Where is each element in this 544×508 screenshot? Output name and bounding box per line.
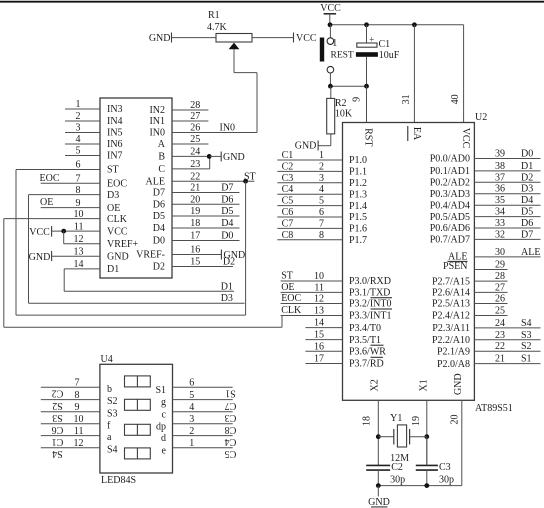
svg-text:P1.5: P1.5: [349, 212, 367, 223]
svg-text:S1: S1: [155, 385, 166, 396]
wire D3 bus vertical left: [28, 195, 30, 304]
wire ADC pin 27: [172, 120, 208, 122]
svg-text:REST: REST: [331, 51, 354, 61]
wire U2 pin 29: [474, 269, 507, 271]
node GND at ADC pin 16: [220, 250, 222, 260]
svg-text:D0: D0: [221, 231, 233, 242]
svg-text:32: 32: [495, 229, 505, 240]
svg-text:20: 20: [190, 194, 200, 205]
svg-text:26: 26: [190, 123, 200, 134]
wire U4 right pin 6: [173, 386, 233, 388]
svg-text:D4: D4: [221, 218, 233, 229]
wire X2 to Y1: [378, 436, 394, 438]
wire ADC pin 14 D1: [64, 268, 100, 270]
wire VCC pin 40 riser: [463, 25, 465, 123]
wire ADC pin 19 D5: [172, 215, 240, 217]
svg-text:D5: D5: [521, 207, 533, 218]
wire U2 pin 2 C2: [277, 170, 342, 172]
svg-text:IN1: IN1: [149, 116, 165, 127]
wire U2 pin 6 C6: [277, 216, 342, 218]
node VCC (right terminal of R1): [293, 33, 295, 43]
svg-text:6: 6: [189, 378, 194, 389]
svg-text:D0: D0: [521, 149, 533, 160]
wire U2 pin 3 C3: [277, 182, 342, 184]
svg-text:C4: C4: [282, 184, 294, 195]
wire U2 pin 13 CLK: [281, 315, 343, 317]
svg-text:13: 13: [314, 306, 324, 317]
svg-text:P2.7/A15: P2.7/A15: [432, 276, 470, 287]
svg-text:P2.3/A11: P2.3/A11: [432, 323, 470, 334]
svg-text:C7: C7: [225, 400, 237, 411]
svg-text:IN7: IN7: [107, 151, 123, 162]
wire X1 vertical: [426, 400, 428, 465]
svg-text:C5: C5: [225, 448, 237, 459]
svg-text:P1.7: P1.7: [349, 235, 367, 246]
svg-text:b: b: [107, 384, 112, 395]
svg-text:OE: OE: [281, 282, 294, 293]
svg-text:27: 27: [190, 111, 200, 122]
svg-text:P0.1/AD1: P0.1/AD1: [430, 166, 470, 177]
svg-text:P3.7/RD: P3.7/RD: [349, 359, 384, 370]
op-amp U4 LED84S box: [100, 364, 173, 473]
wire D3 bus horizontal: [29, 302, 245, 304]
svg-text:d: d: [161, 433, 166, 444]
svg-text:VCC: VCC: [460, 128, 471, 149]
svg-text:C8: C8: [225, 424, 237, 435]
svg-text:2: 2: [189, 426, 194, 437]
svg-text:28: 28: [190, 100, 200, 111]
op-amp U1 ADC box: [100, 98, 172, 278]
svg-text:8: 8: [319, 230, 324, 241]
svg-text:EOC: EOC: [281, 293, 301, 304]
potentiometer wiper arrow of R1: [229, 43, 240, 50]
LED segment symbol 1: [125, 376, 151, 387]
overline INT1: [371, 308, 393, 310]
svg-text:15: 15: [314, 330, 324, 341]
svg-text:P3.3/INT1: P3.3/INT1: [349, 311, 392, 322]
wire U2 pin 21 S1: [474, 363, 540, 365]
svg-text:B: B: [158, 152, 165, 163]
svg-text:C3: C3: [282, 173, 294, 184]
svg-text:S1: S1: [521, 354, 532, 365]
svg-text:D4: D4: [521, 195, 533, 206]
svg-text:S1: S1: [225, 388, 236, 399]
capacitor C1 positive plate: [357, 43, 377, 47]
svg-text:OE: OE: [107, 203, 120, 214]
svg-text:GND: GND: [223, 152, 245, 163]
svg-text:D5: D5: [153, 211, 165, 222]
svg-text:D0: D0: [153, 236, 165, 247]
ground symbol bottom: [377, 486, 379, 497]
svg-text:ALE: ALE: [521, 247, 540, 258]
svg-text:11: 11: [74, 426, 84, 437]
svg-text:S2: S2: [521, 341, 532, 352]
wire U2 pin 1 C1: [277, 159, 342, 161]
svg-text:EOC: EOC: [107, 179, 127, 190]
svg-text:D6: D6: [153, 199, 165, 210]
svg-text:S3: S3: [107, 408, 118, 419]
svg-text:P0.7/AD7: P0.7/AD7: [430, 235, 470, 246]
svg-text:P1.4: P1.4: [349, 201, 367, 212]
svg-text:A: A: [158, 139, 166, 150]
wire ADC pin 26 IN0: [172, 132, 257, 134]
svg-text:15: 15: [190, 257, 200, 268]
svg-text:D5: D5: [221, 206, 233, 217]
resistor R1 (potentiometer body): [216, 34, 252, 43]
wire U4 left pin 9: [41, 411, 100, 413]
resistor R2 body: [327, 98, 335, 133]
junction rail at C3: [424, 483, 429, 488]
svg-text:7: 7: [75, 378, 80, 389]
svg-text:1: 1: [189, 438, 194, 449]
svg-text:LED84S: LED84S: [101, 475, 136, 486]
svg-text:38: 38: [495, 161, 505, 172]
switch S1 actuator bar: [320, 38, 324, 62]
wire U2 pin 7 C7: [277, 227, 342, 229]
svg-text:1: 1: [76, 99, 81, 110]
svg-text:P3.2/INT0: P3.2/INT0: [349, 299, 392, 310]
wire VREF+ riser: [63, 231, 65, 244]
svg-text:23: 23: [190, 159, 200, 170]
wire B-C join vertical: [209, 156, 211, 169]
wire U4 left pin 7: [41, 386, 100, 388]
wire U2 pin 28: [474, 280, 507, 282]
svg-text:IN0: IN0: [220, 123, 236, 134]
svg-text:P2.2/A10: P2.2/A10: [432, 335, 470, 346]
wire U4 right pin 3: [173, 423, 233, 425]
wire ADC pin 5: [65, 155, 100, 157]
svg-text:P3.6/WR: P3.6/WR: [349, 347, 386, 358]
svg-text:g: g: [161, 397, 166, 408]
wire GND pin 20 vertical: [461, 400, 463, 485]
wire D1 vertical: [63, 269, 65, 291]
wire U2 pin 16: [305, 350, 342, 352]
svg-text:D2: D2: [223, 257, 235, 268]
junction X1 at crystal: [424, 434, 429, 439]
wire ADC pin 16 VREF-: [172, 254, 221, 256]
wire C3 upper segment: [426, 437, 428, 466]
wire U2 pin 5 C5: [277, 205, 342, 207]
svg-text:P2.1/A9: P2.1/A9: [437, 346, 470, 357]
svg-text:IN5: IN5: [107, 128, 123, 139]
svg-text:10uF: 10uF: [379, 50, 400, 61]
junction rail at C2: [376, 483, 381, 488]
junction rail at S1: [328, 22, 333, 27]
wire bottom ground rail: [378, 485, 462, 487]
wire CLK bus vertical left: [3, 219, 5, 328]
svg-text:Y1: Y1: [390, 413, 402, 424]
svg-text:C4: C4: [225, 436, 237, 447]
junction at RST riser: [364, 84, 369, 89]
wire U2 pin 15: [305, 339, 342, 341]
svg-text:10: 10: [74, 209, 84, 220]
wire U2 pin 23 S3: [474, 339, 540, 341]
svg-text:17: 17: [314, 354, 324, 365]
wire ADC pin 21 D7: [172, 192, 240, 194]
svg-text:39: 39: [495, 149, 505, 160]
wire U2 pin 32 D7: [474, 238, 540, 240]
svg-text:S2: S2: [107, 396, 118, 407]
wire U2 pin 11 OE: [281, 291, 343, 293]
wire wiper down: [233, 49, 235, 73]
wire U4 right pin 1: [173, 447, 233, 449]
svg-text:D6: D6: [221, 194, 233, 205]
svg-text:ST: ST: [107, 165, 119, 176]
wire R2 to GND: [318, 145, 331, 147]
svg-text:P3.1/TXD: P3.1/TXD: [349, 288, 390, 299]
svg-text:S4: S4: [52, 448, 63, 459]
wire RST riser: [366, 86, 368, 122]
svg-text:P0.6/AD6: P0.6/AD6: [430, 223, 470, 234]
switch S1 top contact: [327, 38, 334, 45]
wire ADC pin 6 ST to left bus: [16, 169, 100, 171]
svg-text:S2: S2: [52, 400, 63, 411]
svg-text:P2.6/A14: P2.6/A14: [432, 288, 470, 299]
wire ADC pin 28: [172, 109, 208, 111]
svg-text:IN0: IN0: [149, 128, 165, 139]
svg-text:2: 2: [76, 111, 81, 122]
svg-text:D6: D6: [521, 218, 533, 229]
wire U4 left pin 12: [41, 447, 100, 449]
svg-text:GND: GND: [149, 33, 171, 44]
svg-text:30p: 30p: [390, 474, 405, 485]
svg-text:C: C: [158, 164, 165, 175]
wire U2 pin 4 C4: [277, 193, 342, 195]
svg-text:D2: D2: [153, 262, 165, 273]
svg-text:6: 6: [319, 207, 324, 218]
wire U2 pin 26: [474, 303, 507, 305]
svg-text:R1: R1: [208, 10, 220, 21]
svg-text:S3: S3: [52, 412, 63, 423]
wire U2 pin 35 D4: [474, 204, 540, 206]
wire junction to GND: [210, 155, 221, 157]
svg-text:7: 7: [76, 174, 81, 185]
svg-text:RST: RST: [362, 128, 373, 146]
junction at R2 top: [328, 84, 333, 89]
wire ST net vertical: [245, 181, 247, 315]
wire U2 pin 37 D2: [474, 181, 540, 183]
wire IN0 riser: [256, 73, 258, 133]
wire ADC pin 10 CLK to left bus: [4, 218, 100, 220]
junction X2 at crystal: [376, 434, 381, 439]
svg-text:D3: D3: [221, 293, 233, 304]
svg-text:4.7K: 4.7K: [207, 22, 228, 33]
svg-text:CLK: CLK: [107, 214, 128, 225]
svg-text:12: 12: [74, 234, 84, 245]
svg-text:14: 14: [314, 318, 324, 329]
svg-text:IN4: IN4: [107, 116, 123, 127]
svg-text:D7: D7: [153, 188, 165, 199]
svg-text:20: 20: [449, 415, 460, 425]
svg-text:EOC: EOC: [40, 173, 60, 184]
svg-text:27: 27: [495, 282, 505, 293]
svg-text:D2: D2: [521, 172, 533, 183]
svg-text:P3.0/RXD: P3.0/RXD: [349, 276, 391, 287]
svg-text:24: 24: [190, 147, 200, 158]
svg-text:P0.5/AD5: P0.5/AD5: [430, 212, 470, 223]
wire ADC pin 25: [172, 143, 208, 145]
svg-text:31: 31: [401, 94, 412, 104]
capacitor C1 negative plate: [356, 52, 378, 57]
wire wiper horizontal: [234, 72, 257, 74]
svg-text:U2: U2: [475, 112, 487, 123]
svg-text:VCC: VCC: [107, 226, 128, 237]
svg-text:19: 19: [190, 206, 200, 217]
svg-text:IN6: IN6: [107, 139, 123, 150]
svg-text:c: c: [162, 409, 167, 420]
svg-text:P3.4/T0: P3.4/T0: [349, 323, 381, 334]
svg-text:17: 17: [190, 231, 200, 242]
svg-text:22: 22: [495, 341, 505, 352]
wire U2 pin 17: [305, 363, 342, 365]
overline WR: [371, 344, 384, 346]
wire C3 bottom: [426, 470, 428, 486]
svg-text:16: 16: [314, 341, 324, 352]
svg-text:D1: D1: [107, 264, 119, 275]
svg-text:AT89S51: AT89S51: [475, 403, 513, 414]
svg-text:30p: 30p: [439, 474, 454, 485]
junction rail at C1: [364, 22, 369, 27]
svg-text:C1: C1: [379, 39, 391, 50]
wire U4 left pin 10: [41, 423, 100, 425]
wire ADC pin 23 C: [172, 168, 210, 170]
svg-text:1: 1: [332, 38, 337, 49]
svg-text:C6: C6: [52, 424, 64, 435]
wire R2 bottom lead: [330, 134, 332, 146]
svg-text:3: 3: [189, 414, 194, 425]
svg-text:34: 34: [495, 207, 505, 218]
svg-text:dp: dp: [156, 421, 166, 432]
wire ADC pin 11 VCC: [52, 230, 100, 232]
wire VCC stem: [329, 14, 331, 25]
svg-text:P2.4/A12: P2.4/A12: [432, 311, 470, 322]
wire ADC pin 8 D3 to left bus: [29, 194, 101, 196]
wire U2 pin 38 D1: [474, 170, 540, 172]
svg-text:S3: S3: [521, 330, 532, 341]
wire VCC rail: [330, 24, 464, 26]
wire U2 pin 25: [474, 315, 507, 317]
svg-text:f: f: [107, 420, 111, 431]
svg-text:28: 28: [495, 271, 505, 282]
svg-text:D3: D3: [107, 190, 119, 201]
svg-text:P1.3: P1.3: [349, 189, 367, 200]
LED segment symbol 4: [125, 448, 151, 459]
overline RD: [371, 356, 384, 358]
wire ADC pin 1: [65, 108, 100, 110]
junction VCC/VREF+: [61, 229, 66, 234]
crystal Y1: [393, 429, 395, 445]
wire U2 pin 30 ALE: [474, 256, 540, 258]
wire U2 pin 10 ST: [281, 280, 343, 282]
svg-text:12: 12: [314, 294, 324, 305]
wire CLK bus step up: [281, 316, 283, 328]
wire C2 bottom: [377, 470, 379, 486]
svg-text:X1: X1: [419, 379, 430, 391]
svg-text:10K: 10K: [335, 109, 353, 120]
svg-text:D1: D1: [521, 161, 533, 172]
wire U4 left pin 11: [41, 435, 100, 437]
svg-text:37: 37: [495, 172, 505, 183]
svg-text:2: 2: [319, 161, 324, 172]
svg-text:C7: C7: [282, 218, 294, 229]
svg-text:U4: U4: [101, 354, 113, 365]
svg-text:4: 4: [189, 402, 194, 413]
svg-text:S4: S4: [107, 444, 118, 455]
svg-text:a: a: [107, 432, 112, 443]
svg-text:C2: C2: [52, 388, 64, 399]
svg-text:26: 26: [495, 294, 505, 305]
svg-text:33: 33: [495, 218, 505, 229]
wire R1 to VCC: [252, 37, 293, 39]
svg-text:9: 9: [76, 198, 81, 209]
svg-text:8: 8: [75, 390, 80, 401]
wire ADC pin 18 D4: [172, 227, 240, 229]
svg-text:IN2: IN2: [149, 105, 165, 116]
svg-text:CLK: CLK: [281, 305, 302, 316]
wire ADC pin 12 VREF+: [64, 243, 100, 245]
wire GND to R1: [172, 37, 216, 39]
svg-text:R2: R2: [335, 98, 347, 109]
svg-text:1: 1: [319, 150, 324, 161]
svg-text:8: 8: [76, 185, 81, 196]
wire rail to S1: [329, 25, 331, 38]
wire Y1 to X1: [410, 436, 427, 438]
svg-text:P3.5/T1: P3.5/T1: [349, 335, 381, 346]
wire ADC pin 20 D6: [172, 203, 240, 205]
svg-text:23: 23: [495, 330, 505, 341]
svg-text:10: 10: [314, 271, 324, 282]
svg-text:21: 21: [190, 183, 200, 194]
svg-text:11: 11: [74, 221, 84, 232]
svg-text:25: 25: [190, 134, 200, 145]
svg-text:40: 40: [450, 94, 461, 104]
wire ADC pin 4: [65, 143, 100, 145]
svg-text:9: 9: [75, 402, 80, 413]
wire U2 pin 27: [474, 291, 507, 293]
svg-text:12: 12: [74, 438, 84, 449]
svg-text:+: +: [369, 35, 374, 45]
wire ADC pin 2: [65, 120, 100, 122]
wire U2 pin 14: [305, 327, 342, 329]
LED segment symbol 2: [125, 399, 151, 410]
wire U2 pin 33 D6: [474, 227, 540, 229]
svg-text:D1: D1: [221, 281, 233, 292]
svg-text:OE: OE: [40, 197, 53, 208]
svg-text:P2.5/A13: P2.5/A13: [432, 299, 470, 310]
svg-text:D7: D7: [521, 229, 533, 240]
svg-text:GND: GND: [107, 251, 129, 262]
wire U2 pin 34 D5: [474, 216, 540, 218]
wire U2 pin 36 D3: [474, 193, 540, 195]
svg-text:D4: D4: [153, 223, 165, 234]
wire EA riser: [413, 25, 415, 123]
svg-text:VCC: VCC: [320, 3, 341, 14]
wire U4 right pin 4: [173, 411, 233, 413]
svg-text:D3: D3: [521, 184, 533, 195]
wire ADC pin 3: [65, 132, 100, 134]
svg-text:30: 30: [495, 247, 505, 258]
svg-text:9: 9: [352, 97, 363, 102]
svg-text:29: 29: [495, 260, 505, 271]
svg-text:e: e: [162, 445, 167, 456]
wire U2 pin 8 C8: [277, 239, 342, 241]
svg-text:36: 36: [495, 184, 505, 195]
svg-text:X2: X2: [369, 379, 380, 391]
svg-text:22: 22: [190, 171, 200, 182]
svg-text:P0.4/AD4: P0.4/AD4: [430, 200, 470, 211]
wire U4 right pin 2: [173, 435, 233, 437]
svg-text:C1: C1: [282, 150, 294, 161]
